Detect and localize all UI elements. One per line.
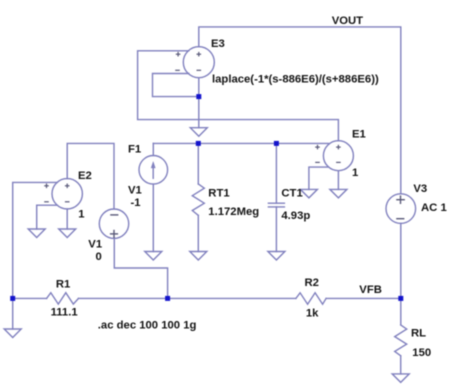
svg-text:E1: E1 [352, 128, 366, 140]
svg-text:V3: V3 [413, 183, 427, 195]
svg-text:CT1: CT1 [281, 188, 302, 200]
svg-text:VFB: VFB [359, 284, 382, 296]
svg-text:VOUT: VOUT [332, 15, 363, 27]
svg-text:-1: -1 [131, 197, 141, 209]
svg-text:150: 150 [412, 347, 431, 359]
svg-text:1k: 1k [306, 308, 319, 320]
svg-text:E3: E3 [211, 38, 225, 50]
svg-text:4.93p: 4.93p [281, 210, 310, 222]
svg-text:V1: V1 [128, 185, 142, 197]
svg-text:.ac dec 100 100 1g: .ac dec 100 100 1g [98, 320, 197, 332]
svg-text:F1: F1 [128, 143, 141, 155]
svg-text:RT1: RT1 [208, 188, 229, 200]
svg-text:AC 1: AC 1 [421, 202, 447, 214]
svg-text:R1: R1 [56, 278, 70, 290]
svg-text:R2: R2 [305, 277, 319, 289]
svg-text:1.172Meg: 1.172Meg [208, 206, 259, 218]
svg-text:RL: RL [411, 328, 426, 340]
svg-text:E2: E2 [78, 170, 92, 182]
svg-text:1: 1 [352, 167, 358, 179]
svg-text:V1: V1 [88, 239, 102, 251]
svg-text:1: 1 [78, 209, 84, 221]
svg-text:laplace(-1*(s-886E6)/(s+886E6): laplace(-1*(s-886E6)/(s+886E6)) [212, 74, 379, 86]
svg-text:111.1: 111.1 [51, 307, 78, 319]
svg-text:0: 0 [96, 251, 102, 263]
